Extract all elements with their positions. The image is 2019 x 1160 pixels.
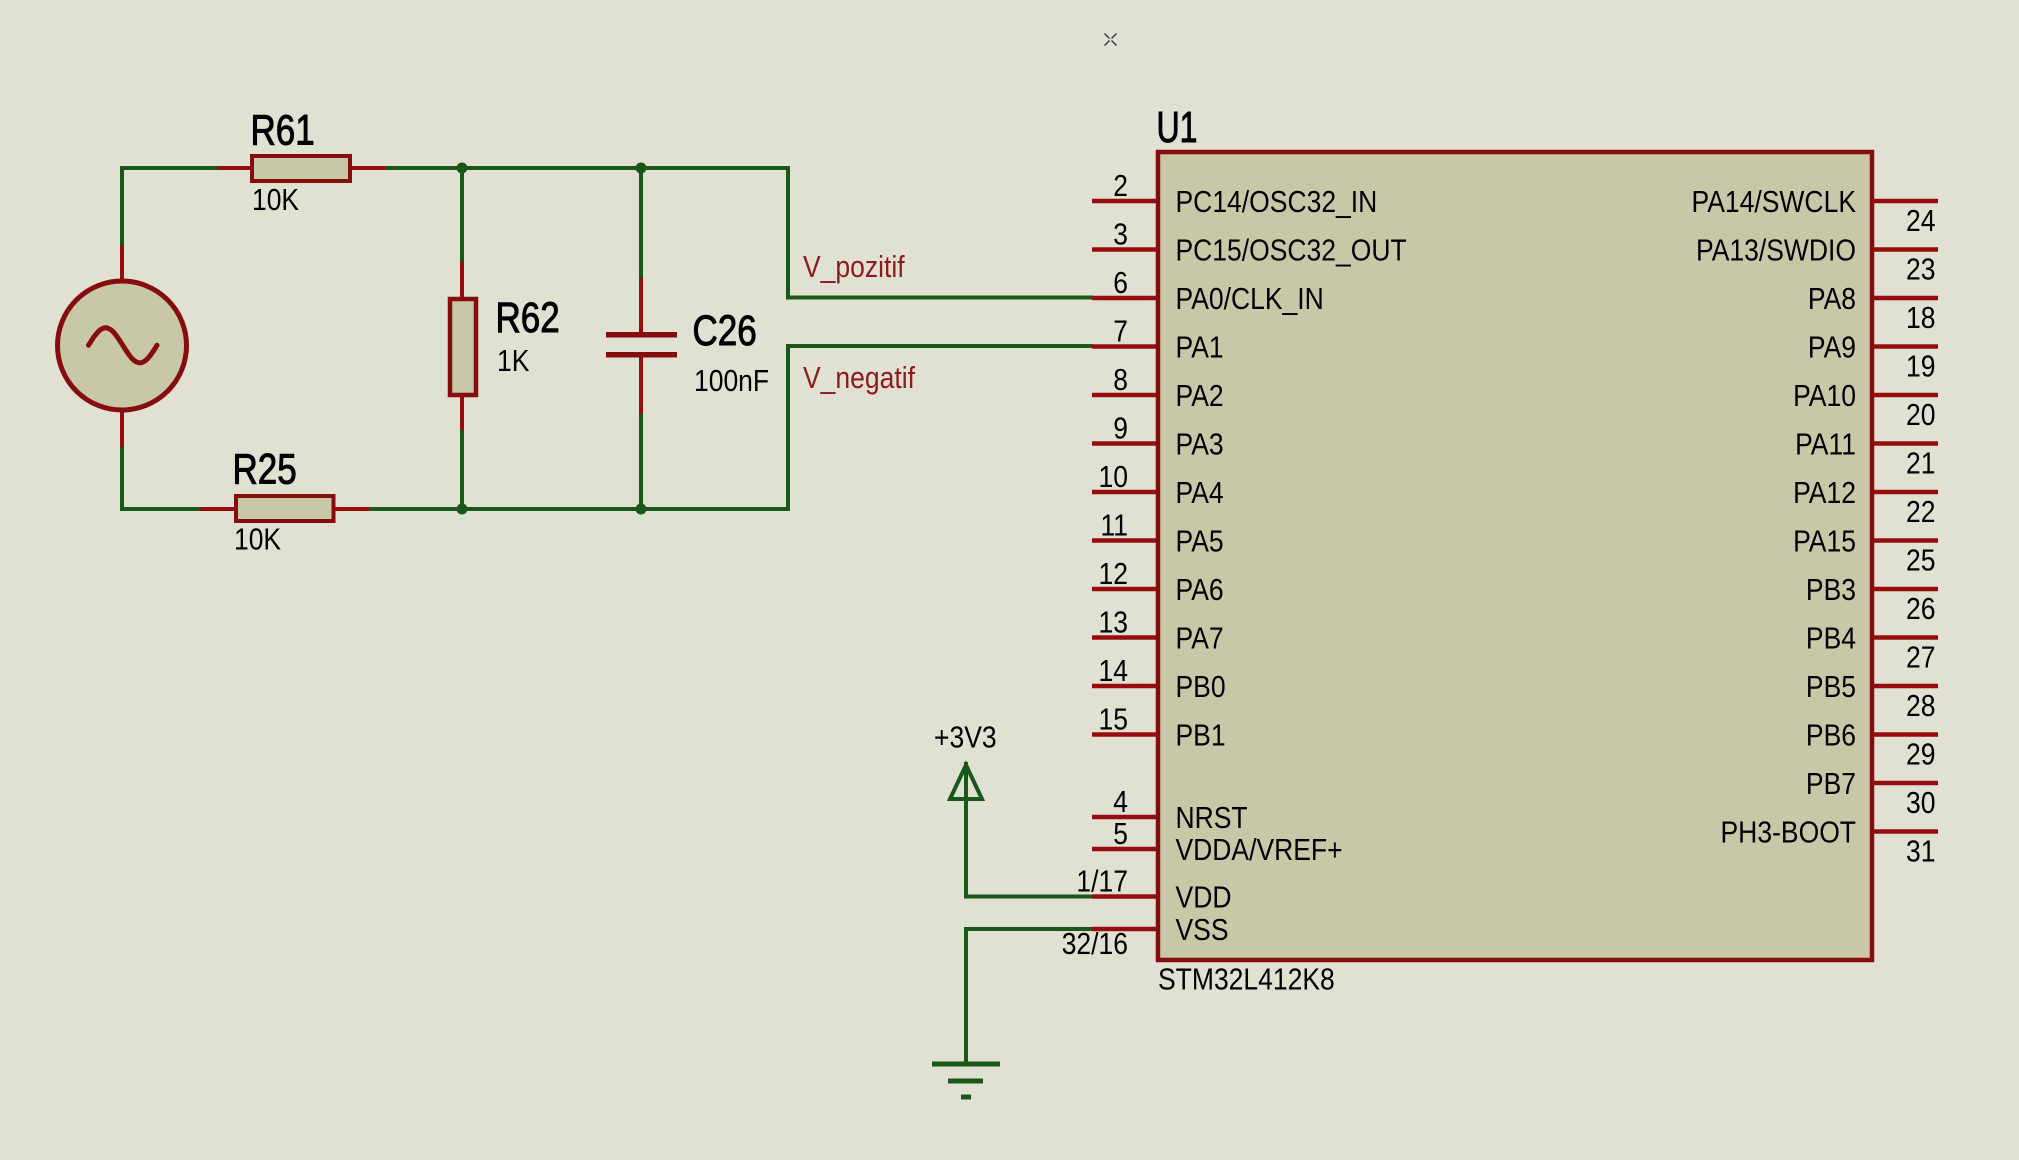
pin 27 PB4 (right) (1874, 635, 1938, 640)
svg-text:PA9: PA9 (1808, 330, 1856, 365)
wire V_pozitif vertical (786, 166, 790, 299)
junction bottom-right node (636, 504, 647, 515)
svg-text:23: 23 (1906, 252, 1936, 287)
svg-text:R62: R62 (496, 294, 560, 342)
wire left vertical (source branch) (120, 166, 124, 511)
wire VSS to ground vertical (964, 927, 968, 1065)
pin 21 PA11 (right) (1874, 441, 1938, 446)
svg-text:12: 12 (1099, 556, 1129, 591)
IC U1 STM32L412K8 body (1158, 152, 1872, 960)
R25 right lead (333, 507, 369, 511)
svg-text:PA15: PA15 (1793, 524, 1856, 559)
svg-text:PA3: PA3 (1176, 427, 1224, 462)
svg-text:28: 28 (1906, 688, 1936, 723)
junction bottom-left node (457, 504, 468, 515)
svg-text:10K: 10K (234, 522, 281, 557)
svg-text:PA11: PA11 (1795, 427, 1856, 462)
svg-text:3: 3 (1113, 217, 1128, 252)
pin 8 PA2 (left) (1092, 393, 1156, 398)
svg-text:PB5: PB5 (1806, 669, 1856, 704)
wire top rail (120, 166, 790, 170)
svg-text:STM32L412K8: STM32L412K8 (1158, 962, 1335, 997)
svg-text:22: 22 (1906, 494, 1936, 529)
svg-text:10: 10 (1099, 459, 1129, 494)
svg-text:PA8: PA8 (1808, 281, 1856, 316)
pin 26 PB3 (right) (1874, 587, 1938, 592)
ground symbol (932, 1062, 1000, 1067)
svg-text:VDDA/VREF+: VDDA/VREF+ (1176, 832, 1343, 867)
pin 18 PA8 (right) (1874, 296, 1938, 301)
svg-text:6: 6 (1113, 265, 1128, 300)
pin 6 PA0/CLK_IN (left) (1092, 296, 1156, 301)
pin 24 PA14/SWCLK (right) (1874, 199, 1938, 204)
wire V_negatif vertical (786, 344, 790, 511)
wire V_negatif horizontal to PA1 (786, 344, 1093, 348)
svg-text:1/17: 1/17 (1076, 864, 1128, 899)
svg-text:15: 15 (1099, 702, 1129, 737)
svg-text:24: 24 (1906, 203, 1936, 238)
svg-text:27: 27 (1906, 640, 1936, 675)
pin 7 PA1 (left) (1092, 344, 1156, 349)
junction top-left node (457, 163, 468, 174)
resistor R61 body (252, 156, 350, 181)
svg-text:VDD: VDD (1176, 880, 1232, 915)
svg-text:29: 29 (1906, 737, 1936, 772)
pin 29 PB6 (right) (1874, 732, 1938, 737)
svg-text:PB6: PB6 (1806, 718, 1856, 753)
svg-text:100nF: 100nF (694, 363, 769, 398)
svg-text:5: 5 (1113, 816, 1128, 851)
svg-text:PA4: PA4 (1176, 475, 1224, 510)
svg-text:V_negatif: V_negatif (803, 360, 915, 395)
pin 1/17 VDD (left) (1092, 894, 1156, 899)
C26 top lead (639, 278, 643, 334)
pin 15 PB1 (left) (1092, 732, 1156, 737)
pin 23 PA13/SWDIO (right) (1874, 247, 1938, 252)
svg-text:PB4: PB4 (1806, 621, 1856, 656)
pin 3 PC15/OSC32_OUT (left) (1092, 247, 1156, 252)
R61 right lead (348, 166, 385, 170)
svg-text:PA7: PA7 (1176, 621, 1224, 656)
R25 left lead (200, 507, 236, 511)
svg-text:VSS: VSS (1176, 912, 1229, 947)
svg-text:U1: U1 (1157, 103, 1198, 152)
svg-text:26: 26 (1906, 591, 1936, 626)
pin 25 PA15 (right) (1874, 538, 1938, 543)
svg-text:PA5: PA5 (1176, 524, 1224, 559)
wire C26 branch vertical lower (639, 357, 643, 509)
svg-text:R25: R25 (233, 446, 297, 494)
svg-text:18: 18 (1906, 300, 1936, 335)
svg-text:PB3: PB3 (1806, 572, 1856, 607)
pin 12 PA6 (left) (1092, 587, 1156, 592)
svg-text:PA1: PA1 (1176, 330, 1224, 365)
svg-text:C26: C26 (693, 307, 757, 355)
pin 5 VDDA/VREF+ (left) (1092, 847, 1156, 852)
pin 11 PA5 (left) (1092, 538, 1156, 543)
pin 32/16 VSS (left) (1092, 927, 1156, 932)
svg-text:20: 20 (1906, 397, 1936, 432)
svg-text:PA2: PA2 (1176, 378, 1224, 413)
wire V_pozitif horizontal to PA0 (786, 296, 1093, 300)
svg-text:31: 31 (1906, 834, 1936, 869)
svg-text:19: 19 (1906, 349, 1936, 384)
power symbol +3V3 arrow (950, 765, 982, 799)
resistor R62 body (450, 299, 476, 395)
pin 4 NRST (left) (1092, 815, 1156, 820)
pin 28 PB5 (right) (1874, 684, 1938, 689)
resistor R25 body (236, 496, 334, 521)
svg-text:8: 8 (1113, 362, 1128, 397)
pin 22 PA12 (right) (1874, 490, 1938, 495)
source bottom lead (120, 409, 124, 447)
wire bottom rail (120, 507, 790, 511)
R61 left lead (218, 166, 253, 170)
source top lead (120, 245, 124, 281)
svg-text:PA12: PA12 (1793, 475, 1856, 510)
svg-text:30: 30 (1906, 785, 1936, 820)
wire +3V3 to VDD (964, 895, 1093, 899)
wire VSS horizontal (964, 927, 1093, 931)
sine voltage source V1 body (58, 281, 187, 410)
svg-text:PB7: PB7 (1806, 766, 1856, 801)
svg-text:PB0: PB0 (1176, 669, 1226, 704)
pin 10 PA4 (left) (1092, 490, 1156, 495)
svg-text:PA13/SWDIO: PA13/SWDIO (1696, 233, 1856, 268)
wire +3V3 vertical (964, 762, 968, 898)
svg-text:NRST: NRST (1176, 800, 1248, 835)
svg-text:PA6: PA6 (1176, 572, 1224, 607)
svg-text:10K: 10K (252, 182, 299, 217)
svg-text:PC15/OSC32_OUT: PC15/OSC32_OUT (1176, 233, 1407, 268)
pin 14 PB0 (left) (1092, 684, 1156, 689)
sine wave symbol (89, 328, 158, 363)
svg-text:11: 11 (1101, 508, 1129, 543)
svg-text:4: 4 (1113, 784, 1128, 819)
svg-text:PA14/SWCLK: PA14/SWCLK (1692, 184, 1857, 219)
svg-text:9: 9 (1113, 411, 1128, 446)
svg-text:13: 13 (1099, 605, 1129, 640)
wire R62 branch vertical (460, 168, 464, 509)
R62 bottom lead (460, 395, 464, 430)
svg-text:+3V3: +3V3 (934, 720, 997, 755)
capacitor C26 plates (606, 332, 677, 338)
pin 31 PH3-BOOT (right) (1874, 829, 1938, 834)
svg-text:R61: R61 (251, 107, 315, 155)
svg-text:1K: 1K (497, 343, 530, 378)
svg-text:V_pozitif: V_pozitif (803, 249, 905, 284)
R62 top lead (460, 262, 464, 299)
pin 19 PA9 (right) (1874, 344, 1938, 349)
svg-text:PC14/OSC32_IN: PC14/OSC32_IN (1176, 184, 1378, 219)
svg-text:21: 21 (1906, 446, 1936, 481)
pin 2 PC14/OSC32_IN (left) (1092, 199, 1156, 204)
svg-text:PA0/CLK_IN: PA0/CLK_IN (1176, 281, 1324, 316)
svg-text:PA10: PA10 (1793, 378, 1856, 413)
svg-text:14: 14 (1099, 653, 1129, 688)
wire C26 branch vertical upper (639, 166, 643, 333)
svg-text:32/16: 32/16 (1062, 926, 1128, 961)
pin 20 PA10 (right) (1874, 393, 1938, 398)
svg-text:PB1: PB1 (1176, 718, 1226, 753)
pin 30 PB7 (right) (1874, 781, 1938, 786)
C26 bottom lead (639, 356, 643, 414)
cursor x mark (1105, 34, 1117, 46)
pin 13 PA7 (left) (1092, 635, 1156, 640)
svg-text:PH3-BOOT: PH3-BOOT (1721, 815, 1857, 850)
svg-text:2: 2 (1113, 168, 1128, 203)
svg-text:25: 25 (1906, 543, 1936, 578)
pin 9 PA3 (left) (1092, 441, 1156, 446)
junction top-right node (636, 163, 647, 174)
svg-text:7: 7 (1113, 314, 1128, 349)
